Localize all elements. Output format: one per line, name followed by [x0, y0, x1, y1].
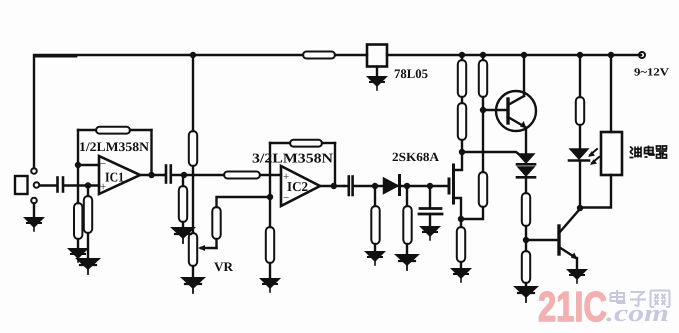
- svg-text:2SK68A: 2SK68A: [392, 150, 439, 164]
- svg-text:+: +: [283, 171, 289, 183]
- svg-text:78L05: 78L05: [394, 66, 428, 81]
- svg-text:−: −: [283, 192, 289, 204]
- svg-text:3/2LM358N: 3/2LM358N: [252, 151, 333, 166]
- svg-text:IC2: IC2: [287, 179, 308, 194]
- svg-text:−: −: [100, 158, 106, 170]
- svg-text:1/2LM358N: 1/2LM358N: [79, 139, 150, 154]
- svg-text:VR: VR: [214, 259, 234, 274]
- svg-text:+: +: [100, 181, 106, 193]
- svg-text:IC1: IC1: [105, 170, 124, 185]
- svg-text:21IC: 21IC: [538, 283, 607, 330]
- svg-text:9~12V: 9~12V: [634, 67, 669, 79]
